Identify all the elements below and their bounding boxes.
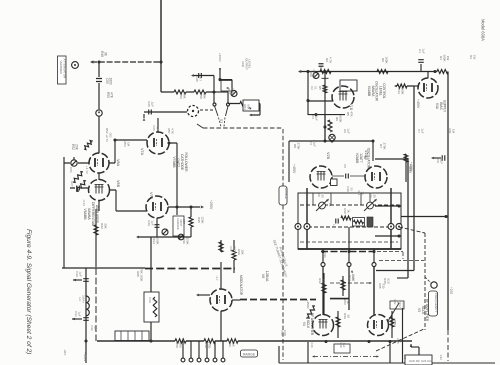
svg-text:AMPLIFIER: AMPLIFIER bbox=[95, 205, 99, 223]
svg-text:V1A: V1A bbox=[435, 103, 439, 110]
svg-text:C22: C22 bbox=[427, 359, 433, 363]
svg-text:V8B: V8B bbox=[116, 180, 120, 188]
svg-text:+4.1V: +4.1V bbox=[85, 166, 89, 174]
svg-text:RF: RF bbox=[363, 156, 367, 160]
svg-text:R13: R13 bbox=[397, 88, 401, 94]
svg-text:4-25: 4-25 bbox=[372, 192, 376, 198]
svg-text:R6: R6 bbox=[335, 117, 339, 121]
svg-text:-4.1V: -4.1V bbox=[82, 199, 86, 206]
svg-text:1µF: 1µF bbox=[421, 48, 425, 53]
svg-text:SET: SET bbox=[182, 219, 186, 224]
svg-text:39: 39 bbox=[346, 314, 350, 318]
svg-text:+250V: +250V bbox=[209, 200, 213, 210]
svg-text:56K: 56K bbox=[182, 93, 186, 98]
svg-text:180K: 180K bbox=[384, 56, 388, 63]
svg-text:S7: S7 bbox=[219, 119, 223, 123]
svg-text:OO: OO bbox=[108, 133, 112, 138]
svg-text:R52: R52 bbox=[71, 144, 75, 150]
svg-text:V3: V3 bbox=[417, 308, 421, 312]
svg-text:L1: L1 bbox=[328, 203, 332, 207]
svg-text:R32: R32 bbox=[100, 223, 104, 229]
svg-text:LEVEL: LEVEL bbox=[378, 86, 382, 96]
svg-text:1K: 1K bbox=[346, 209, 350, 213]
svg-text:C27: C27 bbox=[70, 181, 74, 187]
svg-text:1K: 1K bbox=[346, 300, 350, 304]
svg-text:1M: 1M bbox=[126, 142, 130, 147]
svg-text:+450V: +450V bbox=[83, 352, 87, 362]
svg-text:1µF: 1µF bbox=[346, 128, 350, 133]
svg-text:56K: 56K bbox=[246, 104, 250, 109]
svg-text:200: 200 bbox=[321, 278, 325, 283]
svg-text:51: 51 bbox=[313, 86, 317, 90]
svg-text:1M: 1M bbox=[451, 129, 455, 134]
svg-text:4-25: 4-25 bbox=[320, 192, 324, 198]
svg-text:2700: 2700 bbox=[207, 342, 211, 349]
svg-text:OSCILLATOR: OSCILLATOR bbox=[367, 148, 371, 169]
svg-text:.01µF: .01µF bbox=[312, 139, 316, 147]
svg-text:1µF: 1µF bbox=[420, 128, 424, 133]
svg-text:C4: C4 bbox=[311, 115, 315, 119]
svg-text:-30V: -30V bbox=[63, 349, 67, 355]
svg-text:500: 500 bbox=[232, 247, 236, 252]
svg-text:6CL6: 6CL6 bbox=[421, 306, 425, 314]
svg-text:C8: C8 bbox=[436, 159, 440, 163]
svg-text:270K: 270K bbox=[382, 142, 386, 149]
svg-text:C20 .82: C20 .82 bbox=[409, 359, 420, 363]
svg-text:OSCILLATOR: OSCILLATOR bbox=[375, 81, 379, 102]
svg-text:R28: R28 bbox=[136, 271, 140, 277]
svg-text:180K: 180K bbox=[400, 87, 404, 94]
svg-text:L20: L20 bbox=[403, 355, 407, 360]
svg-text:680: 680 bbox=[178, 342, 182, 347]
svg-text:33: 33 bbox=[360, 191, 364, 195]
svg-text:R36: R36 bbox=[182, 238, 186, 244]
svg-text:R1: R1 bbox=[439, 56, 443, 60]
svg-text:R19: R19 bbox=[204, 342, 208, 348]
svg-text:12AT7: 12AT7 bbox=[359, 153, 363, 163]
svg-text:C21: C21 bbox=[421, 359, 427, 363]
svg-text:1µF: 1µF bbox=[77, 311, 81, 316]
svg-text:4.7: 4.7 bbox=[198, 77, 202, 81]
svg-text:FOLLOWER: FOLLOWER bbox=[184, 152, 188, 172]
svg-text:V8A: V8A bbox=[116, 159, 120, 167]
svg-text:C6: C6 bbox=[343, 129, 347, 133]
svg-text:RANGE: RANGE bbox=[284, 188, 288, 199]
svg-text:LEVEL: LEVEL bbox=[312, 70, 316, 79]
svg-text:V7ABB: V7ABB bbox=[172, 157, 176, 169]
svg-text:RF AMPLIFIER: RF AMPLIFIER bbox=[310, 313, 314, 336]
svg-text:+450V: +450V bbox=[408, 164, 412, 174]
svg-text:1.93: 1.93 bbox=[439, 354, 443, 360]
svg-text:12B4A: 12B4A bbox=[265, 271, 269, 282]
svg-text:6CL6: 6CL6 bbox=[306, 320, 310, 328]
svg-text:R64: R64 bbox=[243, 104, 247, 110]
svg-text:R48: R48 bbox=[100, 51, 104, 57]
svg-text:270K: 270K bbox=[296, 142, 300, 149]
svg-text:L2: L2 bbox=[332, 224, 336, 228]
svg-text:SUPPLY: SUPPLY bbox=[443, 100, 447, 113]
svg-text:6AW8A: 6AW8A bbox=[371, 86, 375, 98]
svg-text:1000: 1000 bbox=[283, 330, 287, 337]
svg-text:R7: R7 bbox=[379, 144, 383, 148]
svg-text:100K: 100K bbox=[155, 237, 159, 244]
svg-text:V1ABB: V1ABB bbox=[367, 86, 371, 96]
svg-text:47K: 47K bbox=[110, 92, 114, 99]
svg-text:R56: R56 bbox=[179, 93, 183, 99]
svg-text:1W: 1W bbox=[472, 55, 476, 60]
svg-text:R16: R16 bbox=[343, 313, 347, 319]
svg-text:DIFFERENTIAL: DIFFERENTIAL bbox=[91, 202, 95, 226]
svg-text:15K: 15K bbox=[240, 249, 244, 254]
svg-text:RF AMPLIFIER: RF AMPLIFIER bbox=[425, 299, 429, 322]
svg-text:R50: R50 bbox=[106, 92, 110, 98]
svg-text:C28: C28 bbox=[147, 101, 151, 107]
svg-text:FREQUENCY: FREQUENCY bbox=[434, 293, 438, 312]
svg-text:V7B: V7B bbox=[149, 192, 153, 200]
svg-text:220K: 220K bbox=[185, 237, 189, 244]
svg-text:C31: C31 bbox=[74, 311, 78, 317]
svg-text:V1B: V1B bbox=[349, 103, 353, 111]
svg-text:LEVEL: LEVEL bbox=[248, 60, 252, 69]
svg-text:C3: C3 bbox=[309, 141, 313, 145]
svg-text:3.5A+: 3.5A+ bbox=[81, 295, 85, 303]
svg-text:47K: 47K bbox=[349, 111, 353, 116]
svg-text:1µF: 1µF bbox=[150, 220, 154, 225]
svg-text:C55: C55 bbox=[105, 78, 109, 84]
svg-text:R12: R12 bbox=[318, 278, 322, 284]
svg-text:C29: C29 bbox=[147, 220, 151, 226]
svg-text:30K: 30K bbox=[202, 93, 206, 98]
svg-text:V2ABB: V2ABB bbox=[355, 153, 359, 164]
svg-text:+450V: +450V bbox=[351, 272, 355, 281]
svg-text:27: 27 bbox=[151, 298, 155, 302]
svg-text:C1: C1 bbox=[418, 49, 422, 53]
svg-text:1800: 1800 bbox=[109, 77, 113, 84]
svg-text:R58: R58 bbox=[199, 93, 203, 99]
svg-text:MODULATOR: MODULATOR bbox=[239, 275, 243, 296]
svg-text:V7A: V7A bbox=[140, 148, 144, 156]
svg-text:1W: 1W bbox=[446, 56, 450, 61]
svg-text:C36: C36 bbox=[323, 252, 327, 258]
svg-text:+255: +255 bbox=[449, 287, 453, 294]
svg-text:+450V: +450V bbox=[218, 53, 222, 62]
svg-text:RANGE: RANGE bbox=[243, 352, 256, 356]
svg-text:470K 100K: 470K 100K bbox=[139, 267, 143, 282]
svg-text:R5: R5 bbox=[346, 112, 350, 116]
svg-text:R18: R18 bbox=[175, 342, 179, 348]
svg-text:V8ABB: V8ABB bbox=[83, 209, 87, 221]
svg-text:12AT7: 12AT7 bbox=[176, 157, 180, 167]
svg-text:+285V: +285V bbox=[393, 318, 397, 327]
svg-text:VERNIER: VERNIER bbox=[59, 61, 63, 75]
svg-text:390K: 390K bbox=[442, 54, 446, 61]
svg-text:Figure 4-9. Signal Generator (: Figure 4-9. Signal Generator (Sheet 2 of… bbox=[25, 229, 32, 354]
svg-text:6AW8A: 6AW8A bbox=[87, 208, 91, 220]
svg-text:R17: R17 bbox=[398, 302, 402, 308]
svg-text:1µF: 1µF bbox=[78, 271, 82, 276]
svg-text:V6: V6 bbox=[261, 274, 265, 278]
svg-text:51: 51 bbox=[399, 339, 403, 343]
svg-text:.1µF: .1µF bbox=[150, 101, 154, 107]
svg-text:100K: 100K bbox=[230, 87, 234, 94]
svg-text:R8: R8 bbox=[293, 144, 297, 148]
svg-text:R34: R34 bbox=[152, 238, 156, 244]
svg-text:.01µF: .01µF bbox=[314, 113, 318, 121]
svg-text:R35: R35 bbox=[197, 217, 201, 223]
svg-text:R3: R3 bbox=[469, 55, 473, 59]
svg-text:600K: 600K bbox=[338, 115, 342, 122]
svg-text:V2B: V2B bbox=[326, 152, 330, 160]
svg-text:120K: 120K bbox=[200, 216, 204, 223]
svg-text:R39: R39 bbox=[237, 249, 241, 255]
svg-text:-1.7: -1.7 bbox=[215, 275, 219, 281]
svg-text:33: 33 bbox=[349, 187, 353, 191]
svg-text:CATHODE: CATHODE bbox=[180, 154, 184, 171]
svg-text:47: 47 bbox=[155, 126, 159, 130]
svg-text:C5: C5 bbox=[343, 164, 347, 168]
svg-text:R2: R2 bbox=[381, 58, 385, 62]
svg-text:4.7K: 4.7K bbox=[328, 57, 332, 63]
svg-text:R4: R4 bbox=[325, 58, 329, 62]
svg-text:BIAS: BIAS bbox=[439, 102, 443, 109]
svg-text:+450V: +450V bbox=[292, 164, 296, 174]
svg-text:47K: 47K bbox=[321, 85, 325, 90]
svg-text:510: 510 bbox=[401, 302, 405, 307]
svg-text:CONTROL: CONTROL bbox=[382, 83, 386, 99]
svg-text:+450V: +450V bbox=[416, 99, 420, 109]
svg-text:C30: C30 bbox=[75, 271, 79, 277]
svg-text:R52 +2.7V: R52 +2.7V bbox=[105, 128, 109, 142]
svg-text:C16: C16 bbox=[310, 342, 314, 348]
svg-text:C84: C84 bbox=[69, 167, 73, 173]
svg-text:51K: 51K bbox=[231, 341, 235, 346]
svg-text:.1µF: .1µF bbox=[439, 158, 443, 164]
svg-text:20K: 20K bbox=[75, 144, 79, 151]
svg-text:20K: 20K bbox=[103, 223, 107, 228]
svg-text:+250V: +250V bbox=[306, 300, 310, 309]
svg-text:1µF: 1µF bbox=[93, 325, 97, 330]
svg-text:Model 608A: Model 608A bbox=[481, 19, 486, 41]
svg-text:510: 510 bbox=[381, 284, 385, 289]
svg-text:V4: V4 bbox=[302, 322, 306, 326]
svg-text:C19: C19 bbox=[148, 297, 152, 303]
svg-text:R20: R20 bbox=[228, 341, 232, 347]
svg-text:R62: R62 bbox=[227, 88, 231, 94]
svg-text:4.7K: 4.7K bbox=[170, 128, 174, 134]
svg-text:L3: L3 bbox=[78, 297, 82, 301]
svg-text:1µF: 1µF bbox=[342, 343, 346, 348]
svg-text:510: 510 bbox=[386, 278, 390, 283]
